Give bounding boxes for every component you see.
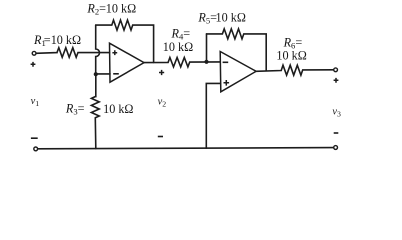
svg-text:10 kΩ: 10 kΩ xyxy=(216,11,246,25)
svg-text:10 kΩ: 10 kΩ xyxy=(106,1,136,15)
svg-text:10 kΩ: 10 kΩ xyxy=(276,49,306,63)
svg-text:10 kΩ: 10 kΩ xyxy=(103,102,133,116)
svg-text:10 kΩ: 10 kΩ xyxy=(51,33,81,47)
svg-text:10 kΩ: 10 kΩ xyxy=(163,40,193,54)
